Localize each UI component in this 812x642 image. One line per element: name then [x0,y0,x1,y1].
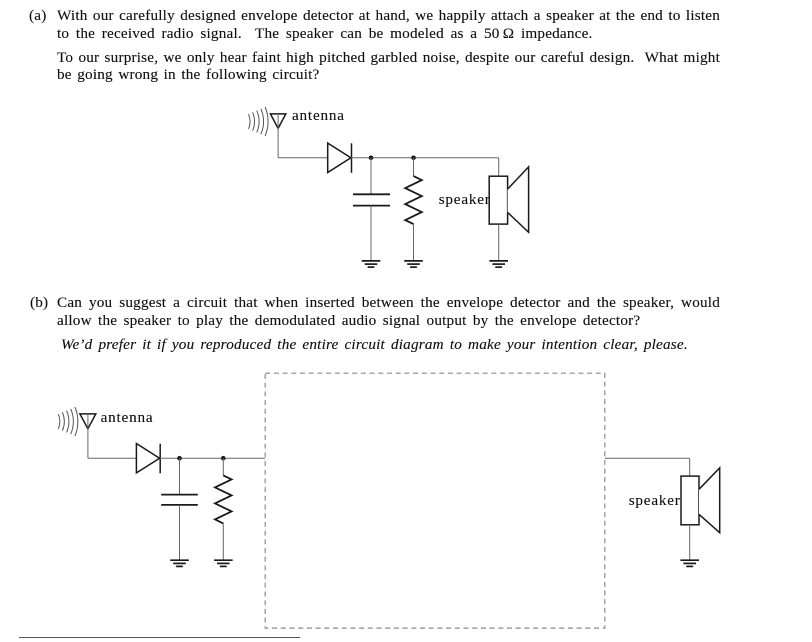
dashed box (b) [265,373,605,628]
wire node4 to resistor (b) [222,458,224,475]
wire box to speaker corner (b) [605,457,690,459]
resistor R1 (circuit a) [405,176,422,224]
wire capacitor to ground (b) [179,505,181,560]
antenna A1 (circuit a) [270,114,285,128]
label speaker (circuit b) [629,493,681,508]
paragraph (a) line 2 [57,26,593,41]
ground under capacitor (b) [170,560,189,566]
ground under capacitor (a) [362,261,381,267]
ground under resistor (b) [214,560,233,566]
wire node1 to capacitor (a) [370,158,372,195]
node junction 2 (a) [411,156,416,161]
label antenna (circuit b) [101,410,154,425]
ground under speaker (b) [680,560,699,566]
wire antenna to diode (b) [88,457,137,459]
paragraph (b) label [30,295,48,310]
wire resistor to ground (a) [413,224,415,260]
resistor R2 (circuit b) [215,475,232,523]
wire diode to corner (a) [351,157,499,159]
paragraph (b) line 2 [57,313,640,328]
wire diode to box (b) [160,457,265,459]
wire node2 to resistor (a) [413,158,415,176]
footnote rule [19,637,300,639]
capacitor C2 (circuit b) [161,495,198,505]
node junction 1 (a) [369,156,374,161]
paragraph (a2) line 1 [57,50,720,65]
wire corner down to speaker (a) [498,158,500,176]
wire speaker to ground (b) [689,525,691,560]
speaker box (circuit a) [489,176,507,224]
node junction 4 (b) [221,456,226,461]
label speaker (circuit a) [439,192,491,207]
speaker box (circuit b) [681,476,699,525]
speaker horn (circuit a) [508,167,529,232]
wire antenna down (a) [277,114,279,158]
wire antenna down (b) [87,414,89,458]
speaker horn (circuit b) [699,468,720,533]
label antenna (circuit a) [292,108,345,123]
wire antenna to diode (a) [278,157,328,159]
wire resistor to ground (b) [222,523,224,559]
paragraph (a) label [29,8,46,23]
node junction 3 (b) [177,456,182,461]
diode D1 (circuit a) [328,143,352,173]
paragraph (a2) line 2 [57,67,319,82]
paragraph (b) line 1 [57,295,720,310]
wire capacitor to ground (a) [370,206,372,261]
capacitor C1 (circuit a) [353,194,390,205]
ground under resistor (a) [404,261,423,267]
paragraph (a) line 1 [57,8,720,23]
wire node3 to capacitor (b) [179,458,181,494]
antenna waves (b) [58,407,78,436]
diode D2 (circuit b) [136,444,160,474]
antenna waves (a) [249,107,269,136]
wire speaker to ground (a) [498,224,500,260]
ground under speaker (a) [489,261,508,267]
antenna A2 (circuit b) [80,414,96,429]
paragraph (b) italic line [61,337,688,352]
wire corner down to speaker (b) [689,458,691,476]
